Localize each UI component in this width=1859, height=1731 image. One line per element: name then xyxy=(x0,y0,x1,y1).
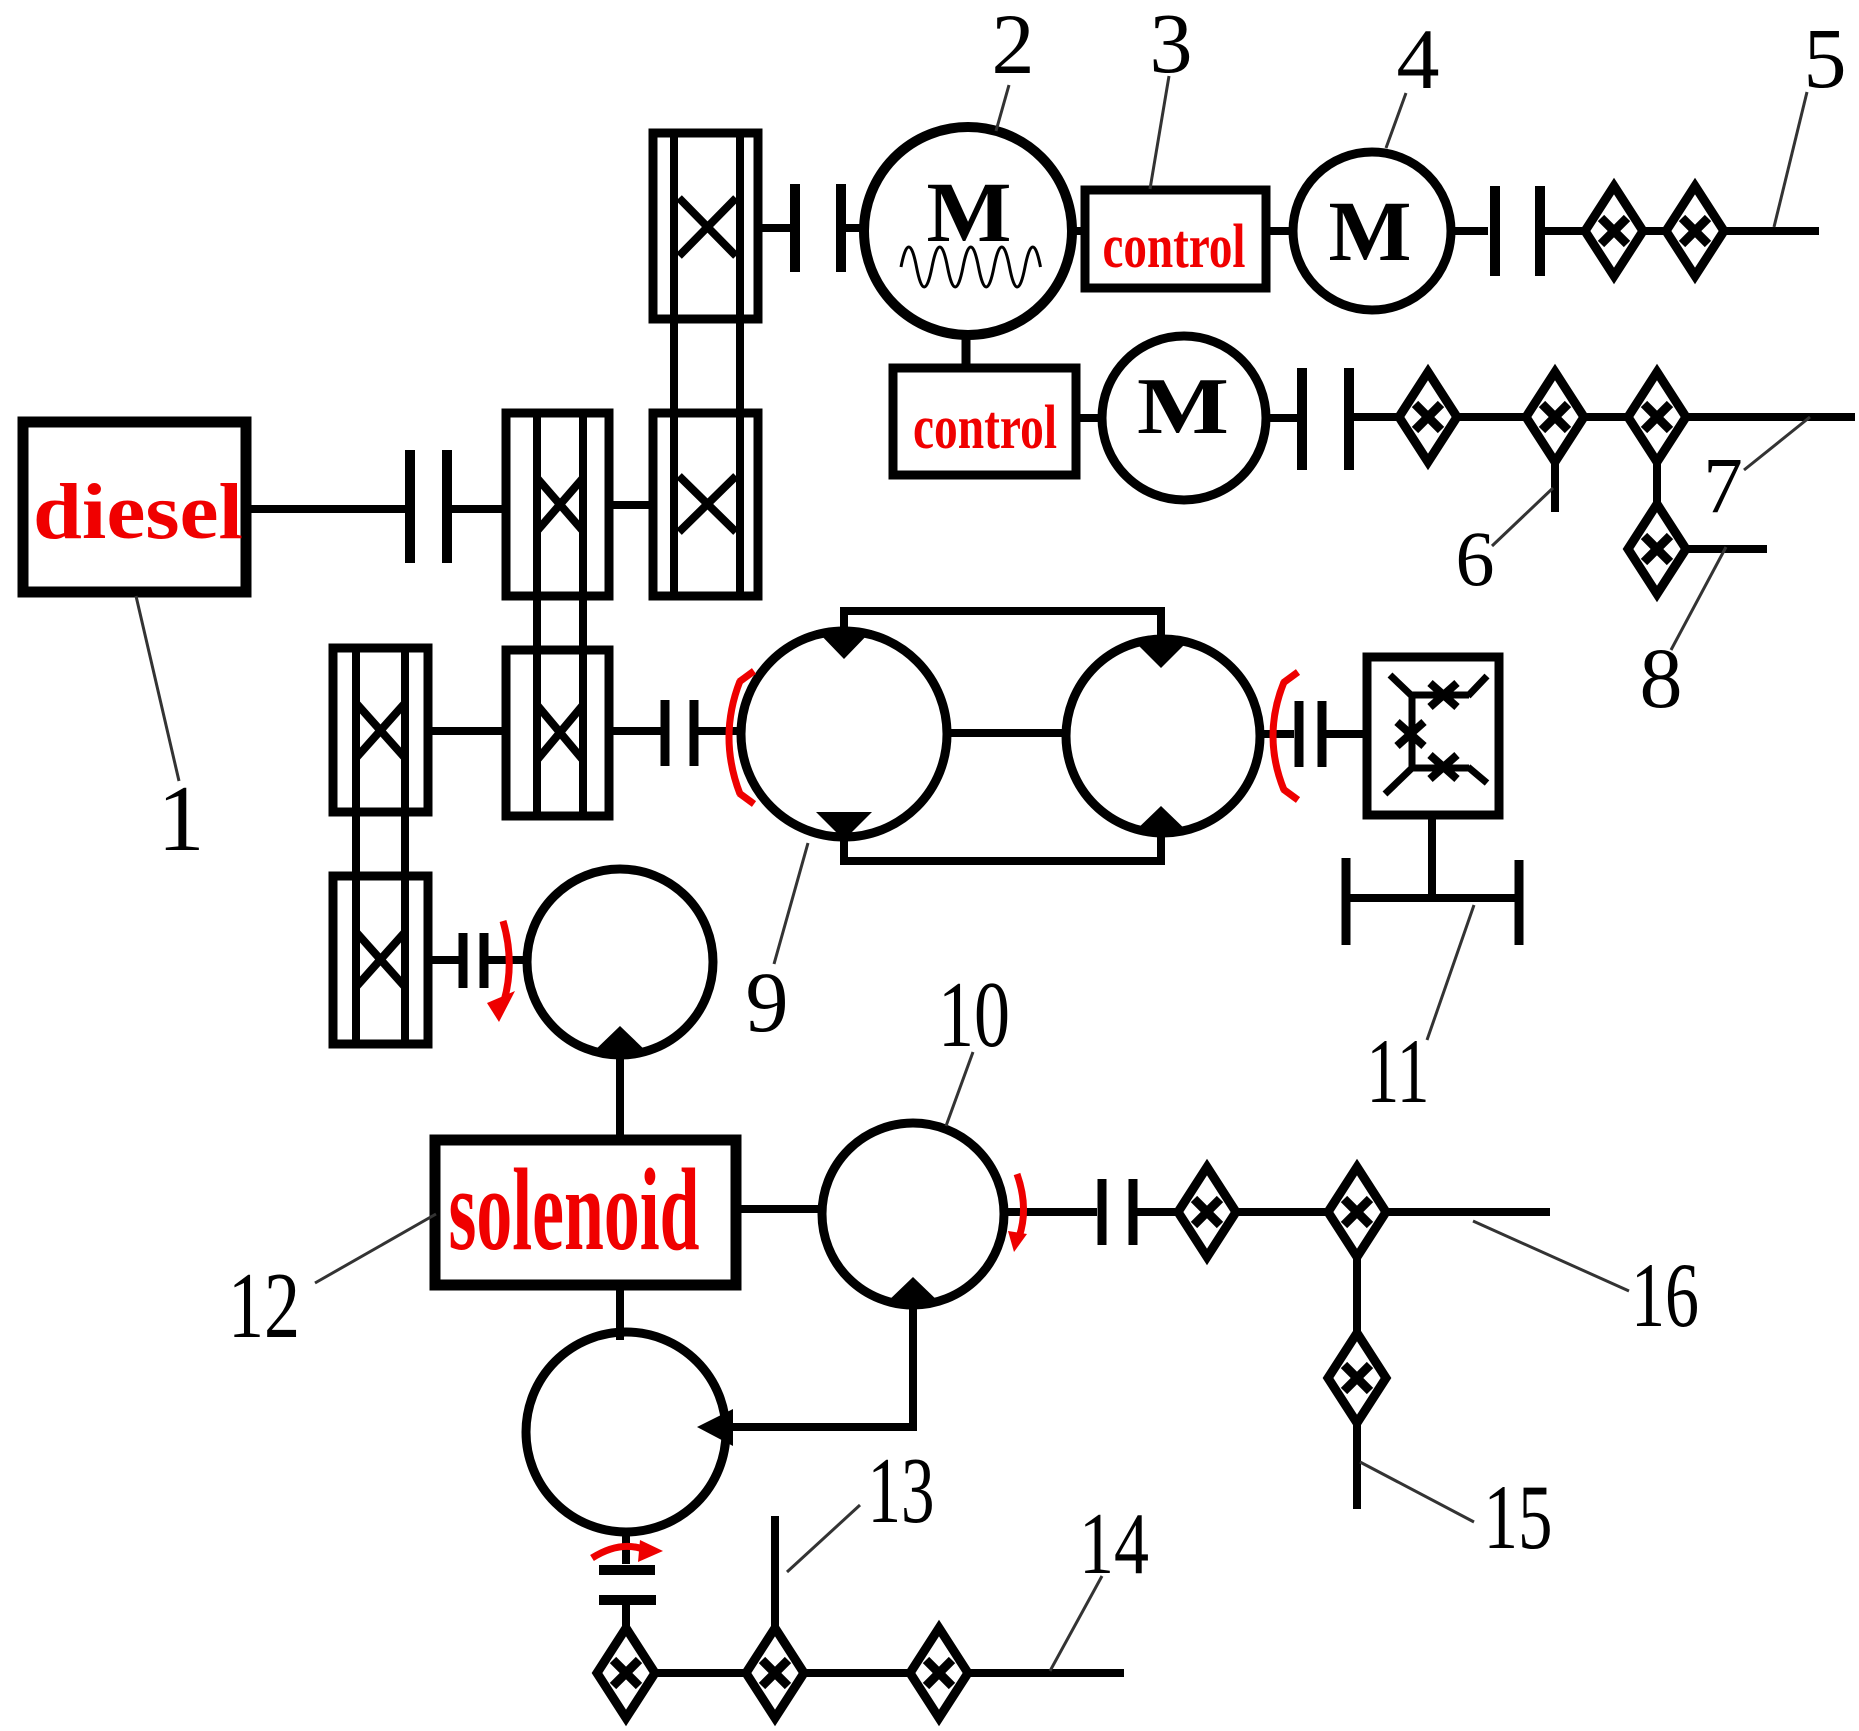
svg-text:10: 10 xyxy=(938,963,1010,1067)
svg-text:M: M xyxy=(1137,363,1229,451)
svg-text:control: control xyxy=(913,394,1057,462)
svg-text:M: M xyxy=(1329,183,1412,279)
svg-text:9: 9 xyxy=(746,954,789,1050)
svg-text:solenoid: solenoid xyxy=(449,1144,700,1275)
svg-text:15: 15 xyxy=(1484,1466,1553,1568)
svg-text:control: control xyxy=(1103,213,1246,281)
svg-text:16: 16 xyxy=(1631,1244,1699,1346)
svg-text:diesel: diesel xyxy=(33,469,243,556)
svg-text:6: 6 xyxy=(1456,515,1495,602)
svg-text:7: 7 xyxy=(1703,443,1743,530)
svg-text:14: 14 xyxy=(1079,1496,1149,1593)
svg-text:5: 5 xyxy=(1804,10,1847,106)
svg-text:13: 13 xyxy=(868,1439,935,1543)
svg-text:11: 11 xyxy=(1367,1020,1430,1122)
svg-text:2: 2 xyxy=(992,0,1035,92)
svg-text:M: M xyxy=(927,164,1012,260)
svg-text:3: 3 xyxy=(1150,0,1193,91)
svg-text:12: 12 xyxy=(228,1254,300,1358)
svg-text:1: 1 xyxy=(158,767,205,871)
svg-text:8: 8 xyxy=(1640,630,1683,726)
svg-text:4: 4 xyxy=(1397,11,1440,107)
